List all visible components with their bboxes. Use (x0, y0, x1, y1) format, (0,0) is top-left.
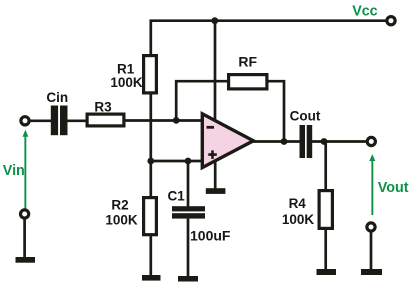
wire C1 bottom lead (187, 219, 190, 277)
junction dot feedback on inverting input (173, 117, 180, 124)
capacitor C1 bottom plate (172, 213, 205, 218)
arrow Vin (23, 130, 29, 211)
resistor RF (229, 75, 267, 89)
capacitor C1 top plate (172, 206, 205, 211)
svg-text:Vin: Vin (3, 163, 25, 179)
resistor R1 (144, 56, 157, 93)
wire Vcc rail (R1 top to Vcc terminal) (151, 21, 386, 55)
ground Vin (16, 257, 36, 263)
wire R4 to ground (324, 228, 327, 270)
svg-text:Vcc: Vcc (352, 3, 377, 19)
terminal Vcc (387, 17, 395, 25)
svg-text:RF: RF (238, 54, 257, 70)
wire input terminal to Cin (31, 119, 52, 122)
ground Vout terminal (361, 269, 382, 275)
junction dot C1 tap (185, 158, 192, 165)
wire C1 top lead (187, 161, 190, 207)
arrow Vout (369, 154, 375, 215)
wire R2 to ground (149, 234, 152, 276)
wire op-amp V- to ground (214, 160, 217, 189)
terminal output (Vout top) (367, 137, 375, 145)
wire RF output side to output node (267, 81, 284, 140)
wire Vin lower terminal to ground (23, 220, 26, 258)
ground C1 (178, 276, 198, 282)
svg-text:Cin: Cin (46, 90, 68, 105)
ground R4 (317, 269, 337, 275)
wire Cin to R3 (68, 119, 87, 122)
ground R2 (142, 275, 161, 281)
wire feedback vertical (175, 81, 178, 120)
terminal input (Vin top) (21, 117, 29, 125)
op-amp minus sign (207, 126, 215, 129)
terminal Vout reference (lower) (367, 223, 375, 231)
svg-text:100K: 100K (110, 75, 143, 90)
wire non-inverting input rail (151, 160, 203, 163)
junction dot bias divider to non-inverting rail (147, 158, 154, 165)
wire Cout to output terminal (312, 140, 366, 143)
svg-text:100K: 100K (282, 212, 315, 227)
capacitor Cout left plate (300, 125, 306, 158)
svg-text:R3: R3 (94, 100, 112, 115)
terminal Vin reference (lower) (21, 210, 29, 218)
junction dot RF to output wire (281, 138, 288, 145)
op-amp plus sign (208, 150, 217, 159)
junction dot on Vcc rail at op-amp supply (211, 17, 218, 24)
capacitor Cout right plate (307, 125, 313, 158)
resistor R2 (144, 198, 157, 235)
wire op-amp output to Cout (253, 140, 300, 143)
wire R4 top lead (324, 142, 327, 191)
op-amp U1 (202, 114, 253, 168)
wire feedback horizontal to RF (175, 80, 228, 83)
resistor R4 (319, 191, 332, 229)
ground op-amp (206, 188, 226, 194)
resistor R3 (87, 114, 124, 126)
svg-text:R2: R2 (111, 197, 128, 212)
svg-text:C1: C1 (168, 189, 186, 204)
svg-text:100K: 100K (105, 212, 138, 227)
svg-text:100uF: 100uF (190, 228, 231, 244)
capacitor Cin right plate (60, 106, 68, 136)
svg-text:Vout: Vout (378, 180, 409, 196)
wire R3 to op-amp inverting input (126, 119, 204, 122)
wire R1 bottom to R2 top (bias divider rail) (149, 93, 152, 197)
junction dot R4 tap (321, 138, 328, 145)
svg-text:Cout: Cout (290, 108, 321, 123)
wire Vout lower terminal to ground (370, 233, 373, 270)
wire op-amp V+ supply drop (214, 21, 217, 120)
svg-text:R4: R4 (289, 196, 307, 211)
capacitor Cin left plate (51, 106, 58, 136)
